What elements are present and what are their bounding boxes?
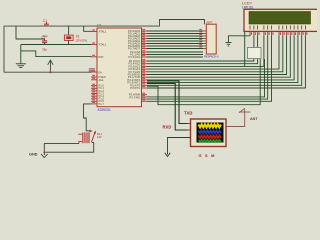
U1 right pin labels <box>127 29 140 99</box>
wire TXD to GSM <box>147 81 191 124</box>
wire switch to gnd <box>44 143 93 153</box>
svg-text:AT89C51: AT89C51 <box>98 108 111 112</box>
wire P1.7 to relay <box>84 104 92 131</box>
GSM module body <box>188 119 227 158</box>
LCD pin numbers <box>251 32 308 35</box>
svg-text:U1: U1 <box>97 24 101 28</box>
wire RXD to GSM <box>147 83 191 130</box>
U1 PSEN/ALE pin marks <box>89 69 95 72</box>
U1 left pin stubs <box>91 32 97 104</box>
ground terminal GND <box>29 151 48 157</box>
wire RST branch <box>21 51 92 57</box>
svg-text:RP?: RP? <box>207 21 213 25</box>
svg-text:XTAL1: XTAL1 <box>99 30 107 34</box>
svg-text:ANT: ANT <box>250 117 258 121</box>
microcontroller U1 (AT89C51) <box>97 24 142 113</box>
wire bus r5 D1 <box>147 36 283 72</box>
wire bus r13 <box>147 59 265 97</box>
svg-text:12V: 12V <box>97 135 102 139</box>
component box (contrast network) <box>248 48 262 59</box>
wire XTAL1 net <box>16 26 92 39</box>
wire GSM to antenna <box>226 109 245 127</box>
wire bus r11 D7 <box>147 36 305 88</box>
ground terminal (GSM) <box>165 151 170 157</box>
LCD pin name marks <box>250 26 305 30</box>
wire VCC rail top <box>4 20 205 73</box>
wire bus r10 D6 <box>147 36 302 85</box>
wire LCD VSS to ground <box>228 36 250 42</box>
svg-text:X1: X1 <box>76 35 80 39</box>
wire LCD VEE into box <box>257 36 259 48</box>
antenna ANT <box>239 108 250 113</box>
wire gnd junction <box>43 143 45 152</box>
svg-text:G S M: G S M <box>199 153 216 158</box>
svg-text:RESPACK-8: RESPACK-8 <box>204 55 219 59</box>
relay RL1 coil <box>44 132 102 144</box>
wire bus MCU to LCD r1 VDD <box>147 59 254 61</box>
svg-text:P1.7: P1.7 <box>99 102 105 106</box>
wire bus r7 D3 <box>147 36 290 77</box>
wire XTAL2 net <box>21 44 92 46</box>
power terminal VCC arrow <box>48 60 53 73</box>
wire to ground (osc) <box>20 45 22 64</box>
wire bus r8 D4 <box>147 36 294 80</box>
svg-text:33p: 33p <box>42 47 47 51</box>
GSM left pins <box>188 124 191 138</box>
svg-text:C1: C1 <box>43 19 47 23</box>
U1 right pin numbers <box>142 29 145 100</box>
svg-text:P3.5/T1: P3.5/T1 <box>130 86 140 90</box>
ground (osc section) <box>16 64 26 68</box>
svg-text:EA: EA <box>99 71 103 75</box>
LCD pin stubs <box>250 31 305 36</box>
U1 left pin labels <box>99 30 107 106</box>
LCD module LCD1 <box>242 2 319 32</box>
wire rail drop to LCD nets <box>244 31 246 66</box>
svg-text:CRYSTAL: CRYSTAL <box>76 38 88 42</box>
capacitor C1 <box>43 19 49 38</box>
wire P0 bus to resistor pack <box>147 31 203 57</box>
svg-text:RXD: RXD <box>163 124 172 129</box>
resistor pack RP1 <box>199 21 219 59</box>
svg-text:GND: GND <box>29 152 38 156</box>
capacitor C2 <box>42 35 48 51</box>
svg-text:ALE: ALE <box>99 78 104 82</box>
wire EA/VCC horizontal <box>4 71 92 73</box>
wire bus r9 D5 <box>147 36 298 83</box>
GSM screen rows <box>199 125 221 128</box>
svg-text:TXD: TXD <box>184 111 192 116</box>
U1 left pin numbers <box>92 29 95 103</box>
svg-text:RST: RST <box>99 55 105 59</box>
crystal X1 <box>64 26 88 44</box>
svg-text:P3.7/RD: P3.7/RD <box>129 95 140 99</box>
svg-text:C2: C2 <box>42 35 46 39</box>
wire bus r15 E <box>147 36 272 101</box>
wire bus r2 VEE <box>147 59 258 64</box>
wire bus r6 D2 <box>147 36 287 75</box>
wire U-loop to LCD <box>147 59 260 105</box>
wire GSM gnd <box>168 138 191 151</box>
wire bus r3 RS <box>147 36 264 66</box>
wire bus r14 RW <box>147 36 268 99</box>
ground (near RESPACK) <box>226 43 232 47</box>
U1 right pin stubs <box>142 31 148 101</box>
wire bus r4 D0 <box>147 36 279 69</box>
wire LCD VDD into box <box>253 36 255 48</box>
relay switch contact <box>90 130 96 142</box>
svg-text:XTAL2: XTAL2 <box>99 43 107 47</box>
